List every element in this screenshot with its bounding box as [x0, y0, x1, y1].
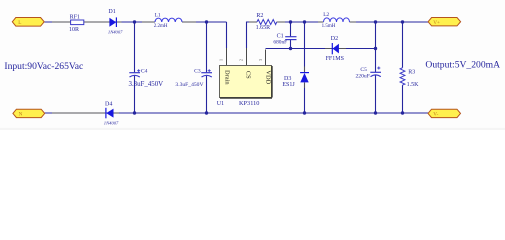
svg-text:R2: R2 [256, 13, 263, 19]
svg-text:CS: CS [244, 71, 251, 79]
svg-text:L2: L2 [323, 12, 329, 18]
svg-text:N: N [19, 112, 23, 118]
svg-text:C4: C4 [141, 69, 148, 75]
svg-text:1.5mH: 1.5mH [322, 24, 336, 29]
svg-text:3: 3 [258, 59, 263, 61]
svg-text:1.5K: 1.5K [407, 82, 420, 88]
svg-text:3.3uF_450V: 3.3uF_450V [129, 81, 164, 88]
svg-text:D1: D1 [108, 9, 115, 15]
svg-text:D4: D4 [105, 102, 112, 108]
svg-text:D3: D3 [284, 76, 291, 82]
svg-text:KP3110: KP3110 [239, 100, 259, 107]
svg-text:C5: C5 [360, 67, 367, 73]
svg-text:2.2mH: 2.2mH [154, 24, 168, 29]
svg-text:220uF: 220uF [356, 74, 370, 80]
svg-text:L: L [18, 20, 21, 26]
svg-text:R3: R3 [408, 69, 415, 75]
svg-text:3.3uF_450V: 3.3uF_450V [175, 82, 203, 88]
svg-text:Input:90Vac-265Vac: Input:90Vac-265Vac [4, 61, 83, 72]
svg-text:1N4007: 1N4007 [108, 30, 123, 35]
svg-text:V+: V+ [433, 20, 440, 26]
svg-text:V-: V- [433, 111, 438, 117]
svg-text:RF1: RF1 [70, 14, 80, 20]
svg-text:2: 2 [238, 59, 243, 61]
svg-text:FF1MS: FF1MS [326, 56, 344, 62]
svg-text:L1: L1 [155, 12, 161, 18]
svg-text:ES1J: ES1J [282, 82, 295, 88]
svg-text:D2: D2 [331, 36, 338, 42]
svg-text:680nF: 680nF [273, 39, 287, 45]
svg-text:Output:5V_200mA: Output:5V_200mA [425, 59, 500, 70]
svg-text:C3: C3 [194, 69, 201, 75]
svg-text:1: 1 [219, 59, 224, 61]
svg-text:U1: U1 [217, 101, 224, 107]
svg-text:C1: C1 [277, 33, 284, 39]
svg-text:VDD: VDD [265, 70, 272, 84]
svg-text:1N4007: 1N4007 [104, 120, 119, 125]
svg-text:1.65R: 1.65R [256, 25, 271, 31]
svg-text:Drain: Drain [224, 70, 231, 85]
svg-text:10R: 10R [69, 27, 79, 33]
